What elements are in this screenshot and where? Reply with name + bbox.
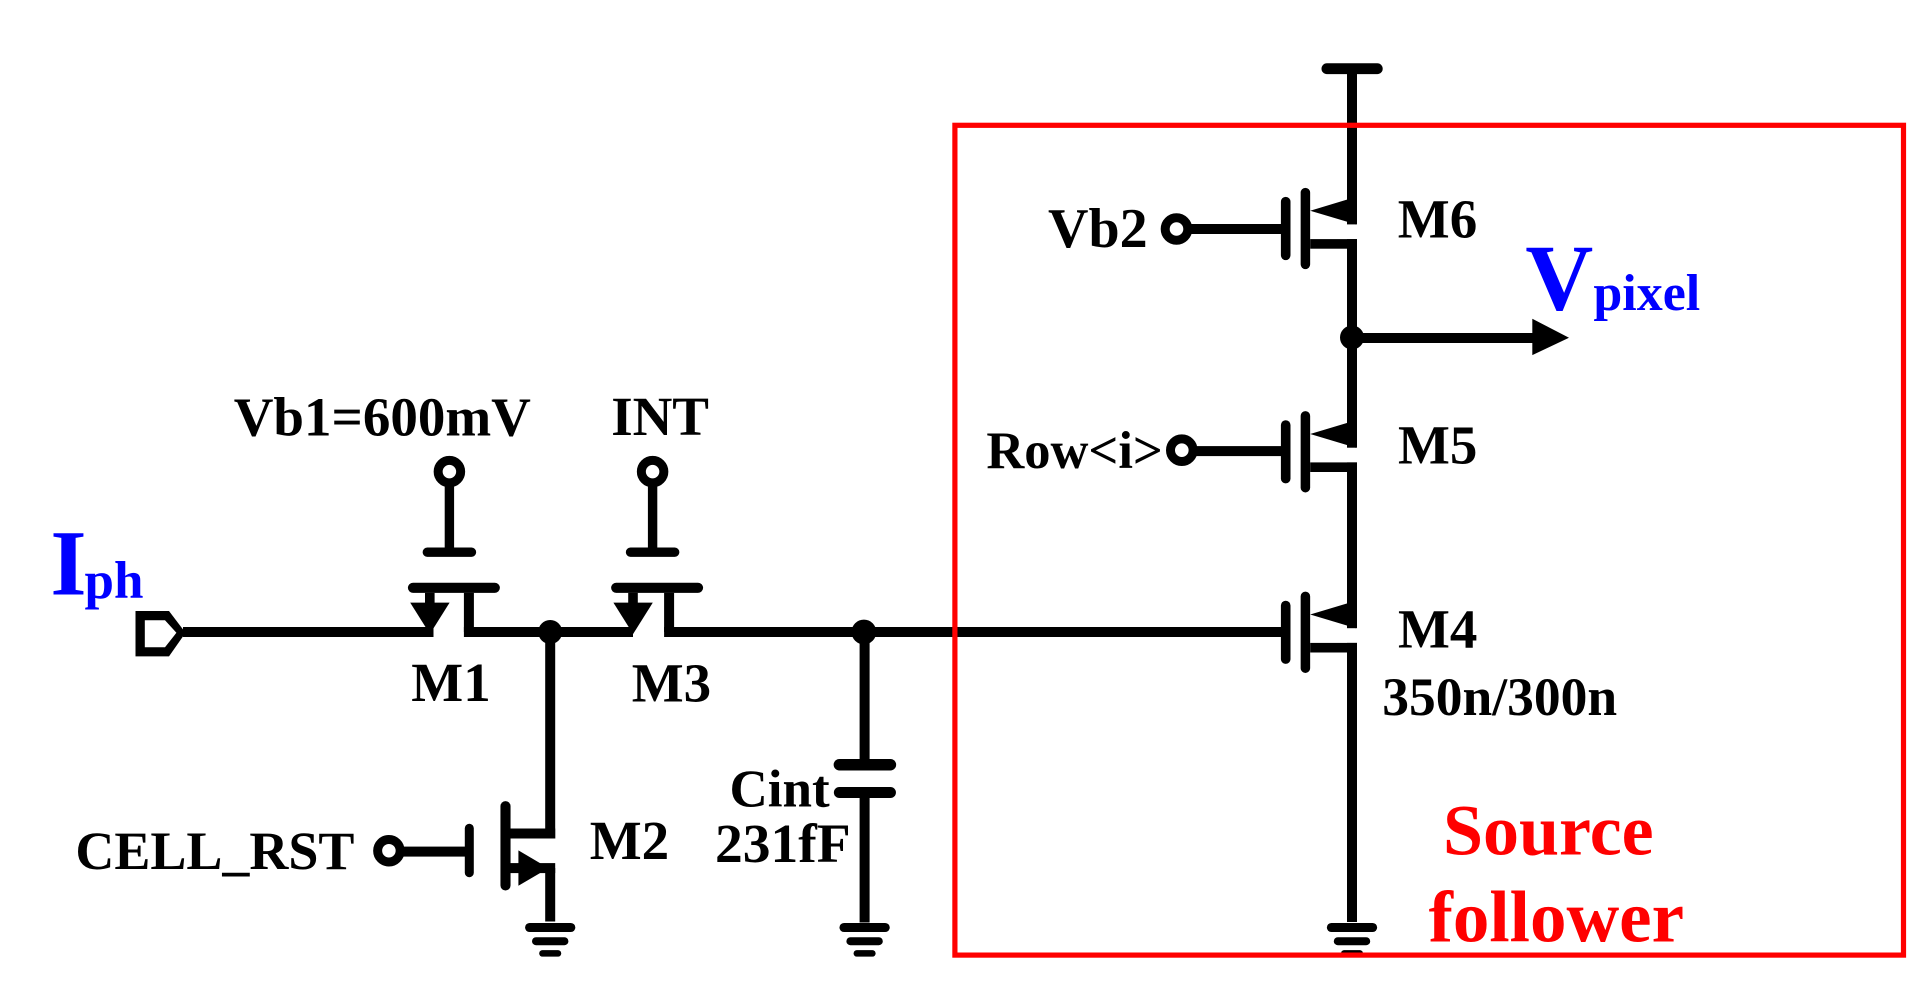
svg-text:M4: M4 (1398, 599, 1477, 660)
svg-text:pixel: pixel (1593, 265, 1700, 322)
svg-text:INT: INT (611, 386, 709, 447)
transistor M6 (1286, 193, 1357, 265)
node B (Cint node) (852, 620, 877, 645)
svg-text:M3: M3 (632, 653, 711, 714)
source follower box (red) (955, 125, 1904, 955)
terminal INT circle (641, 460, 664, 483)
terminal Vb1 circle (438, 460, 461, 483)
wire Row to M5 gate (1195, 446, 1281, 456)
node C (Vpixel tap) (1340, 326, 1364, 350)
transistor M3 (613, 486, 698, 634)
svg-text:Source: Source (1443, 791, 1654, 871)
wire M1 drain to M3 source (464, 627, 633, 637)
transistor M4 (1286, 596, 1357, 668)
supply VDD symbol (1327, 69, 1377, 225)
svg-text:350n/300n: 350n/300n (1382, 667, 1617, 727)
arrowhead Vpixel (1532, 319, 1569, 355)
svg-text:Cint: Cint (730, 761, 830, 819)
wire cap bottom to ground (860, 798, 870, 923)
ground under M2 (530, 928, 571, 954)
svg-text:Vb2: Vb2 (1048, 198, 1148, 260)
ground under M4 (1331, 928, 1372, 954)
svg-text:M1: M1 (411, 652, 490, 713)
svg-text:I: I (50, 513, 86, 616)
svg-text:Vb1=600mV: Vb1=600mV (234, 386, 531, 447)
svg-text:ph: ph (85, 552, 144, 610)
svg-text:CELL_RST: CELL_RST (75, 821, 354, 881)
transistor M2 (469, 806, 555, 921)
ground under Cint (844, 928, 885, 954)
svg-text:V: V (1525, 226, 1593, 330)
wire input to M1 source (183, 627, 434, 637)
wire rail M5 drain to M4 (1347, 462, 1357, 628)
terminal Vb2 circle (1165, 218, 1188, 241)
capacitor C1 plates (839, 765, 890, 793)
wire Vpixel output (1352, 333, 1534, 343)
wire M3 drain to M4 gate (664, 627, 1281, 637)
capacitor Cint wire from node B (860, 632, 870, 759)
transistor M1 (410, 486, 495, 634)
svg-text:M5: M5 (1398, 415, 1477, 476)
wire node A down to M2 drain (545, 632, 555, 839)
svg-text:231fF: 231fF (715, 814, 851, 875)
terminal Row circle (1171, 439, 1194, 462)
port Iph input terminal (136, 611, 186, 656)
node A (integration node left) (538, 620, 562, 644)
wire Vb2 to M6 gate (1190, 224, 1281, 234)
wire rail M6 drain to M5 (1347, 239, 1357, 448)
svg-text:Row<i>: Row<i> (986, 422, 1163, 480)
svg-text:M6: M6 (1398, 189, 1477, 250)
wire rail M4 source to ground (1347, 643, 1357, 922)
terminal CELL_RST circle (378, 839, 401, 862)
wire CELL_RST to M2 gate (400, 847, 465, 857)
svg-text:follower: follower (1429, 876, 1684, 957)
transistor M5 (1286, 416, 1357, 488)
svg-text:M2: M2 (590, 810, 669, 871)
